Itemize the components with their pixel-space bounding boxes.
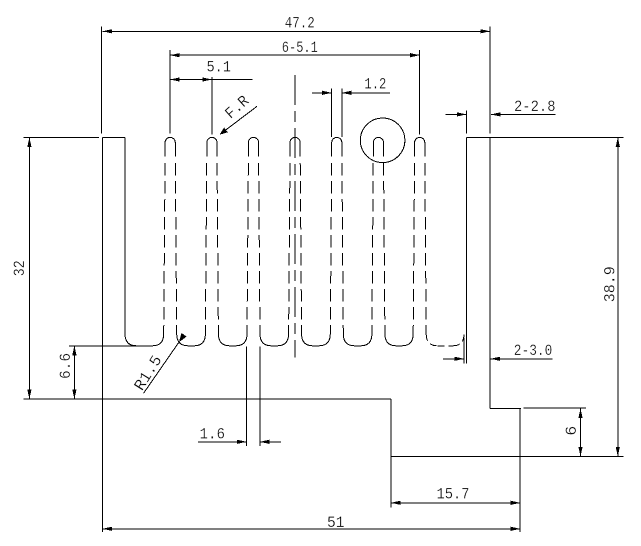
- slot 4 bottom flat: [313, 345, 319, 347]
- dimension 2-3.0 left arrow: [455, 357, 465, 361]
- fin 5 left edge (dashed): [330, 158, 331, 334]
- extension line fin5 left edge: [331, 88, 333, 137]
- dimension 2-2.8 right arrow: [491, 112, 501, 116]
- bottom edge of lower step + extensions: [391, 455, 623, 457]
- svg-text:6-5.1: 6-5.1: [282, 39, 318, 57]
- slot 7 right fillet of fin7 (dashed): [426, 334, 437, 346]
- dimension 6 line: [580, 409, 582, 457]
- dimension 32 top arrow: [27, 137, 31, 147]
- fin 5 top cap: [332, 137, 342, 156]
- extension line fin1 center: [169, 50, 171, 134]
- left wall inner edge: [125, 137, 136, 345]
- fin 1 left edge (dashed): [164, 158, 165, 334]
- dimension 1.6 left segment: [198, 441, 247, 443]
- svg-text:47.2: 47.2: [285, 15, 315, 33]
- fin 5 right bottom fillet R1.5: [343, 334, 354, 346]
- fin 1 left bottom fillet R1.5: [152, 334, 163, 346]
- svg-text:1.2: 1.2: [364, 75, 386, 93]
- svg-text:2-3.0: 2-3.0: [514, 342, 553, 360]
- dimension 2-2.8 left arrow: [457, 112, 467, 116]
- svg-text:38.9: 38.9: [602, 266, 620, 302]
- dimension 2-2.8 left segment: [446, 113, 467, 115]
- leader line R1.5: [144, 342, 179, 393]
- dimension 51 right arrow: [511, 527, 521, 531]
- extension line notch top: [524, 407, 587, 409]
- dimension 1.6 right segment: [260, 441, 281, 443]
- extension line fin7 center: [419, 50, 421, 134]
- extension line shelf front edge: [465, 111, 467, 134]
- circle callout around fin 6 tip: [360, 118, 405, 163]
- slot 7 bottom flat (dashed): [438, 345, 453, 347]
- dimension 6 bottom arrow: [578, 447, 582, 457]
- svg-text:6.6: 6.6: [57, 353, 75, 379]
- fin 7 top cap: [415, 137, 425, 156]
- slot 0 bottom flat: [136, 345, 152, 347]
- dimension 47.2 left arrow: [103, 29, 113, 33]
- fin 2 left bottom fillet R1.5: [194, 334, 205, 346]
- svg-text:F.R: F.R: [222, 92, 254, 123]
- dimension 51 line: [103, 528, 521, 530]
- dimension 38.9 top arrow: [616, 137, 620, 147]
- fin 2 left edge (dashed): [205, 158, 206, 334]
- svg-text:5.1: 5.1: [207, 59, 232, 77]
- dimension 6-5.1 right arrow: [410, 53, 420, 57]
- slot 6 bottom flat: [396, 345, 402, 347]
- right wall outer edge / dimension 38.9 line: [617, 137, 619, 456]
- fin 3 right edge (dashed): [259, 158, 260, 334]
- fin 2 right bottom fillet R1.5: [218, 334, 229, 346]
- svg-text:15.7: 15.7: [437, 486, 470, 504]
- fin 6 right bottom fillet R1.5: [385, 334, 396, 346]
- extension line fin2 center: [211, 77, 213, 134]
- fin 6 left edge (dashed): [372, 158, 373, 334]
- extension line top of left wall: [24, 136, 100, 138]
- dimension 1.2 left arrow: [322, 91, 332, 95]
- dimension 47.2 right arrow: [481, 29, 491, 33]
- dimension 1.2 left segment: [312, 92, 332, 94]
- extension line x=490 (47.2 / 2-2.8): [489, 27, 491, 134]
- left wall outer edge + 51 extension: [102, 137, 104, 532]
- dimension 1.2 right arrow: [342, 91, 352, 95]
- fin 1 right bottom fillet R1.5: [177, 334, 188, 346]
- svg-text:2-2.8: 2-2.8: [514, 98, 556, 116]
- fin 4 left edge (dashed): [289, 158, 290, 334]
- dimension 2-3.0 left segment: [443, 358, 464, 360]
- dimension 38.9 bottom arrow: [616, 447, 620, 457]
- slot 7 right side fillet (dashed): [453, 334, 464, 346]
- dimension 5.1 left arrow: [170, 77, 180, 81]
- dimension 15.7 left arrow: [391, 501, 401, 505]
- dimension 1.2 right segment: [342, 92, 390, 94]
- fin 4 top cap: [290, 137, 300, 156]
- slot 5 bottom flat: [355, 345, 361, 347]
- extension line slot7 right edge: [463, 338, 465, 364]
- extension line top-left corner: [101, 27, 103, 134]
- fin 3 right bottom fillet R1.5: [260, 334, 271, 346]
- fin 5 left bottom fillet R1.5: [319, 334, 330, 346]
- dimension 32 line: [28, 137, 30, 399]
- fin 3 left edge (dashed): [247, 158, 248, 334]
- fin 6 left bottom fillet R1.5: [361, 334, 372, 346]
- bottom edge of left base + 32 extension: [24, 398, 392, 400]
- dimension 6.6 bottom arrow: [72, 390, 76, 400]
- svg-text:R1.5: R1.5: [131, 352, 166, 394]
- leader line F.R: [222, 106, 258, 133]
- notch top edge: [490, 408, 521, 410]
- dimension 6-5.1 left arrow: [170, 53, 180, 57]
- fin 3 left bottom fillet R1.5: [236, 334, 247, 346]
- dimension 2-3.0 right segment: [491, 358, 553, 360]
- right wall inner edge: [489, 137, 491, 408]
- fin 5 right edge (dashed): [342, 158, 343, 334]
- dimension 6.6 line: [73, 346, 75, 399]
- dimension 6.6 top arrow: [72, 346, 76, 356]
- dimension 1.6 right arrow: [260, 440, 270, 444]
- dimension 2-2.8 right segment: [491, 113, 556, 115]
- svg-text:6: 6: [563, 426, 581, 436]
- extension line fin3 left bottom edge: [246, 347, 248, 446]
- fin 1 right edge (dashed): [175, 158, 176, 334]
- extension line fin3 right bottom edge: [259, 347, 261, 446]
- dimension 15.7 line: [391, 502, 520, 504]
- fin 1 top cap: [165, 137, 175, 156]
- svg-text:1.6: 1.6: [200, 425, 226, 443]
- dimension 6 top arrow: [578, 409, 582, 419]
- extension line slot bottom level: [69, 345, 137, 347]
- dimension 6-5.1 line: [170, 54, 420, 56]
- fin 7 left edge (dashed): [413, 158, 414, 334]
- lower step right edge + 15.7/51 extension: [519, 409, 521, 532]
- part symmetry centerline: [294, 75, 296, 358]
- fin 6 top cap: [373, 137, 383, 156]
- svg-text:32: 32: [11, 260, 29, 276]
- fin 4 right bottom fillet R1.5: [302, 334, 313, 346]
- dimension 51 left arrow: [103, 527, 113, 531]
- dimension 15.7 right arrow: [511, 501, 521, 505]
- right shelf front edge: [466, 137, 468, 363]
- fin 7 right edge (dashed): [425, 158, 426, 334]
- fin 2 right edge (dashed): [217, 158, 218, 334]
- fin 3 top cap: [248, 137, 258, 156]
- dimension 32 bottom arrow: [27, 390, 31, 400]
- dimension 5.1 line: [170, 79, 252, 81]
- dimension 1.6 left arrow: [237, 440, 247, 444]
- fin 2 top cap: [207, 137, 217, 156]
- slot 2 bottom flat: [230, 345, 236, 347]
- leader arrow F.R: [220, 127, 228, 134]
- fin 7 left bottom fillet R1.5: [402, 334, 413, 346]
- base step left edge + 15.7 extension: [390, 399, 392, 508]
- dimension 47.2 line: [103, 30, 491, 32]
- left wall top edge: [103, 136, 126, 138]
- fin 6 right edge (dashed): [384, 158, 385, 334]
- dimension 5.1 right arrow: [202, 77, 212, 81]
- leader arrow R1.5: [179, 333, 187, 342]
- slot 3 bottom flat: [271, 345, 277, 347]
- fin 4 right edge (dashed): [300, 158, 301, 334]
- slot 1 bottom flat: [188, 345, 194, 347]
- dimension 2-3.0 right arrow: [491, 357, 501, 361]
- right shelf top edge + 38.9 extension: [467, 136, 624, 138]
- svg-text:51: 51: [327, 514, 345, 532]
- extension line fin5 right edge: [341, 88, 343, 137]
- fin 4 left bottom fillet R1.5: [277, 334, 288, 346]
